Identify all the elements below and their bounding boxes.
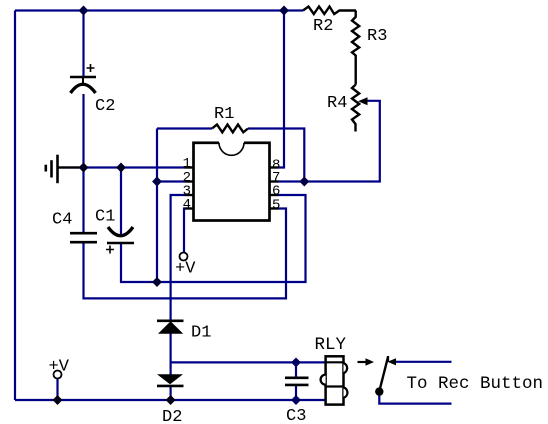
wire pin8 to top rail xyxy=(279,11,285,168)
potentiometer R4 wiper arrow xyxy=(358,97,368,105)
wire pin3 down to D1 xyxy=(171,195,185,321)
terminal +V bottom left xyxy=(54,371,62,379)
wire C2 to ground node xyxy=(82,94,84,233)
wire ground to pin1 xyxy=(58,166,185,168)
wire +V stub bottom left xyxy=(56,379,58,400)
wire switch top right xyxy=(395,361,452,363)
pin 4 stub xyxy=(185,207,194,209)
capacitor C3 xyxy=(285,378,309,385)
svg-text:R1: R1 xyxy=(214,105,234,124)
wire C2 top segment xyxy=(82,11,84,78)
svg-text:C2: C2 xyxy=(95,97,115,116)
svg-text:+V: +V xyxy=(49,358,70,377)
switch pivot dot xyxy=(375,387,383,395)
terminal +V near pin 4 xyxy=(180,253,188,261)
resistor R3 xyxy=(352,11,359,85)
capacitor C1 xyxy=(106,227,134,254)
wire diode node to relay coil xyxy=(171,361,326,363)
resistor R1 xyxy=(212,125,248,133)
diode D2 xyxy=(157,374,184,386)
junction ground node xyxy=(79,163,89,173)
wire C4 bottom to pin5 run xyxy=(84,209,287,299)
IC timer 8-pin DIP body xyxy=(194,141,270,221)
junction top left xyxy=(79,6,89,16)
junction top pin8 xyxy=(279,6,289,16)
wire pin4 down to +V terminal xyxy=(183,209,186,253)
junction pin7 node xyxy=(299,177,309,187)
wire bottom rail xyxy=(15,399,326,401)
wire D1 to D2 xyxy=(170,334,172,375)
junction C1 bottom node xyxy=(152,277,162,287)
junction D2 bottom rail xyxy=(166,395,176,405)
diode D1 xyxy=(157,321,184,334)
junction +V bottom rail xyxy=(53,395,63,405)
svg-text:R4: R4 xyxy=(327,94,347,113)
svg-text:R2: R2 xyxy=(313,17,333,36)
svg-text:R3: R3 xyxy=(367,27,387,46)
junction C3 bottom xyxy=(291,395,301,405)
wire switch bottom right xyxy=(379,392,451,404)
wire C3 top stub xyxy=(295,362,297,377)
pin 5 stub xyxy=(270,207,279,209)
pin 7 stub xyxy=(270,180,279,182)
pin 2 stub xyxy=(185,180,194,182)
junction C3 top xyxy=(291,357,301,367)
wire C3 bottom stub xyxy=(295,386,297,401)
wire C1 upper segment xyxy=(120,168,122,237)
svg-text:5: 5 xyxy=(272,198,280,214)
switch fixed contact tick xyxy=(387,356,389,362)
svg-text:+V: +V xyxy=(175,260,196,279)
wire C1 bottom to pin6 run xyxy=(121,195,306,282)
capacitor C4 xyxy=(70,233,97,242)
switch wire arrowhead xyxy=(388,358,397,365)
capacitor C2 xyxy=(70,64,96,93)
wire R1 left leg to pin2 node and down xyxy=(156,129,158,283)
switch lever xyxy=(379,357,388,391)
svg-text:RLY: RLY xyxy=(315,335,347,355)
wire R1 horizontal right to pin7 node xyxy=(248,129,304,182)
svg-text:D2: D2 xyxy=(162,408,182,424)
svg-text:D1: D1 xyxy=(191,324,211,343)
pin 1 stub xyxy=(185,166,194,168)
svg-text:C4: C4 xyxy=(52,211,72,230)
junction C1 top node xyxy=(116,163,126,173)
wire left rail xyxy=(14,11,16,401)
pin 8 stub xyxy=(270,166,279,168)
svg-text:4: 4 xyxy=(183,197,191,213)
junction pin2 node xyxy=(152,177,162,187)
wire D2 to bottom rail xyxy=(170,386,172,400)
wire pin2 stub link xyxy=(157,180,185,182)
potentiometer R4 xyxy=(352,85,359,132)
svg-text:To Rec Button: To Rec Button xyxy=(407,374,544,394)
wire top rail xyxy=(15,9,303,11)
pin 6 stub xyxy=(270,194,279,196)
wire R1 horizontal left xyxy=(157,127,212,129)
svg-text:C1: C1 xyxy=(95,208,115,227)
relay action arrow xyxy=(358,358,375,366)
wire pin7 to R4 wiper run xyxy=(279,101,380,182)
svg-text:C3: C3 xyxy=(286,407,306,424)
ground xyxy=(46,155,80,184)
resistor R2 xyxy=(303,7,356,15)
relay RLY coil box xyxy=(321,356,348,404)
pin 3 stub xyxy=(185,194,194,196)
